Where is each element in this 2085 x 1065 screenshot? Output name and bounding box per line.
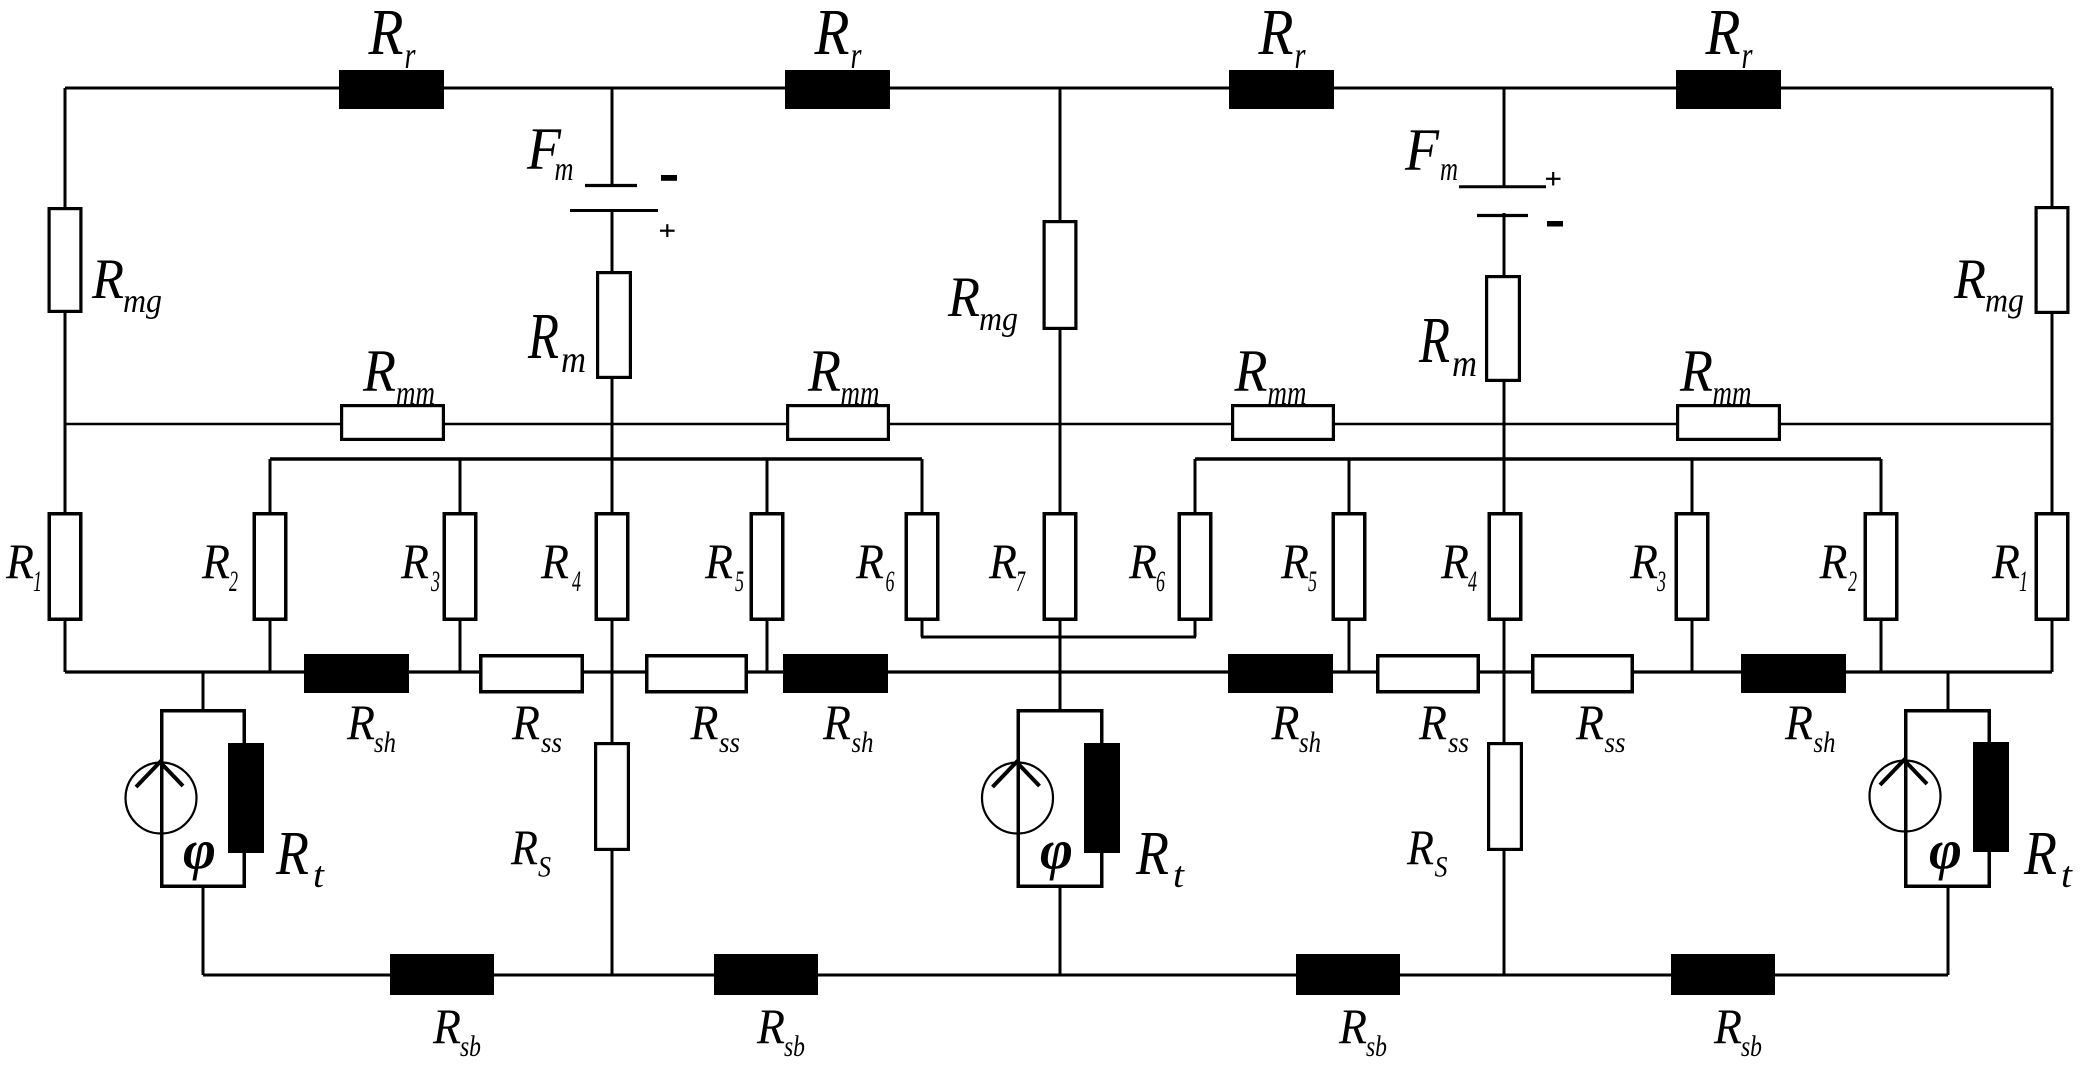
svg-text:3: 3: [1656, 565, 1666, 598]
svg-text:5: 5: [1308, 565, 1317, 598]
resistor R_sb #3 (black): [1296, 954, 1400, 1063]
svg-text:S: S: [538, 851, 551, 884]
wire left edge vertical: [64, 88, 67, 672]
resistor R4 left: [540, 514, 628, 620]
svg-text:r: r: [405, 35, 416, 77]
svg-text:mg: mg: [1985, 283, 2024, 320]
resistor R1 left: [5, 514, 81, 620]
resistor R3 left: [400, 514, 476, 620]
resistor R5 left: [704, 514, 783, 620]
svg-text:mm: mm: [396, 375, 435, 412]
resistor R_r #2 (black): [785, 0, 890, 109]
svg-text:t: t: [313, 855, 326, 896]
wire left Fm-Rm-R4-RS column: [611, 210, 614, 975]
svg-text:ss: ss: [1448, 726, 1469, 759]
svg-text:R: R: [91, 248, 124, 311]
svg-text:R: R: [400, 533, 429, 589]
wire right edge vertical: [2051, 88, 2054, 672]
resistor R3 right: [1629, 514, 1708, 620]
svg-text:R: R: [1128, 533, 1157, 589]
svg-text:R: R: [2023, 820, 2057, 888]
wire R_mm horizontal bus: [65, 423, 2052, 426]
wire R6 left stub: [921, 459, 924, 637]
svg-text:r: r: [1295, 35, 1306, 77]
svg-text:R: R: [1406, 819, 1434, 875]
svg-text:sb: sb: [1741, 1030, 1762, 1063]
wire R3 right stub: [1691, 459, 1694, 672]
svg-text:mm: mm: [841, 375, 880, 412]
svg-text:R: R: [5, 533, 34, 589]
svg-text:R: R: [1418, 694, 1447, 750]
svg-text:m: m: [1452, 343, 1477, 385]
svg-text:ss: ss: [541, 726, 562, 759]
resistor R_mm #4: [1678, 338, 1780, 439]
wire R6-R7 sub connection line: [921, 636, 1196, 639]
resistor R_mm #2: [788, 338, 889, 439]
svg-text:R: R: [988, 533, 1017, 589]
svg-text:R: R: [432, 998, 461, 1054]
svg-text:R: R: [1135, 820, 1169, 888]
resistor R2 right: [1819, 514, 1897, 620]
current source phi #2 (circle with arrow): [982, 711, 1102, 887]
svg-text:6: 6: [1156, 565, 1165, 598]
svg-text:R: R: [510, 819, 538, 875]
svg-text:R: R: [807, 338, 841, 404]
resistor R_sh #3 (black): [1228, 654, 1333, 759]
svg-text:sh: sh: [1814, 726, 1836, 759]
wire R6 right stub: [1194, 459, 1197, 637]
svg-text:4: 4: [1468, 565, 1477, 598]
svg-text:R: R: [1440, 533, 1469, 589]
svg-text:φ: φ: [183, 820, 216, 882]
svg-text:sh: sh: [852, 726, 874, 759]
svg-text:m: m: [561, 339, 586, 381]
svg-text:sb: sb: [460, 1030, 481, 1063]
svg-text:R: R: [690, 694, 719, 750]
resistor R_sb #1 (black): [390, 954, 494, 1063]
svg-text:6: 6: [886, 565, 895, 598]
svg-text:sh: sh: [1299, 726, 1321, 759]
svg-text:5: 5: [735, 565, 744, 598]
svg-text:R: R: [1234, 338, 1268, 404]
svg-text:R: R: [1418, 304, 1450, 377]
resistor R_r #1 (black): [339, 0, 444, 109]
wire phi1 top stub: [202, 672, 205, 709]
svg-text:R: R: [1280, 533, 1309, 589]
svg-text:1: 1: [33, 565, 42, 598]
svg-text:sb: sb: [1366, 1030, 1387, 1063]
svg-text:m: m: [1440, 151, 1458, 188]
wire main node line: [65, 670, 2052, 673]
resistor R_t #2 (black): [1084, 743, 1186, 896]
wire bottom bus: [203, 974, 1948, 977]
wire phi2 bottom stub: [1059, 888, 1062, 975]
resistor R_r #4 (black): [1676, 0, 1781, 109]
svg-text:2: 2: [229, 565, 238, 598]
resistor R_ss #3: [1378, 656, 1479, 759]
svg-text:R: R: [346, 694, 375, 750]
svg-text:φ: φ: [1040, 820, 1073, 882]
svg-text:R: R: [201, 533, 230, 589]
svg-text:mm: mm: [1713, 375, 1752, 412]
svg-text:4: 4: [572, 565, 581, 598]
resistor R_m left: [527, 273, 630, 381]
resistor R_r #3 (black): [1229, 0, 1334, 109]
svg-text:R: R: [814, 0, 850, 69]
resistor R_mg middle: [947, 222, 1076, 338]
svg-text:R: R: [1629, 533, 1658, 589]
resistor R_t #1 (black): [228, 743, 326, 896]
svg-text:R: R: [527, 300, 559, 373]
wire right Fm column upper: [1503, 88, 1506, 187]
resistor R_mm #3: [1233, 338, 1334, 439]
svg-text:R: R: [1679, 338, 1713, 404]
svg-text:R: R: [1705, 0, 1741, 69]
wire R2 right stub: [1880, 459, 1883, 672]
resistor R_mm #1: [342, 338, 444, 439]
resistor R6 right: [1128, 514, 1211, 620]
svg-text:R: R: [1575, 694, 1604, 750]
resistor R4 right: [1440, 514, 1521, 620]
svg-text:R: R: [822, 694, 851, 750]
wire right inner bus: [1195, 457, 1881, 461]
resistor R2 left: [201, 514, 286, 620]
svg-text:r: r: [851, 35, 862, 77]
svg-text:R: R: [1953, 248, 1986, 311]
wire phi1 bottom stub: [202, 888, 205, 975]
svg-text:1: 1: [2019, 565, 2028, 598]
svg-text:ss: ss: [1605, 726, 1626, 759]
svg-text:t: t: [1173, 855, 1186, 896]
svg-text:mg: mg: [123, 283, 162, 320]
wire right Fm-Rm-R4-RS column: [1503, 213, 1506, 975]
resistor R_m right: [1418, 277, 1519, 385]
wire middle vertical (Rmg-R7-phi column): [1059, 88, 1062, 709]
svg-text:sh: sh: [374, 726, 396, 759]
svg-text:R: R: [947, 266, 980, 329]
svg-text:mm: mm: [1268, 375, 1307, 412]
svg-text:R: R: [855, 533, 884, 589]
wire R3 left stub: [459, 459, 462, 672]
svg-text:m: m: [555, 151, 574, 188]
resistor R5 right: [1280, 514, 1365, 620]
resistor R_ss #1: [481, 656, 583, 759]
svg-text:R: R: [1819, 533, 1848, 589]
wire phi3 bottom stub: [1947, 888, 1950, 975]
svg-text:R: R: [1271, 694, 1300, 750]
svg-text:ss: ss: [719, 726, 740, 759]
svg-text:R: R: [1784, 694, 1813, 750]
wire R2 left stub: [269, 459, 272, 672]
current source phi #1 (circle with arrow): [126, 711, 245, 887]
resistor R6 left: [855, 514, 938, 620]
svg-text:r: r: [1742, 35, 1753, 77]
resistor R7 middle: [988, 514, 1076, 620]
battery F_m left (short plate top, long plate bottom): [526, 116, 677, 237]
svg-text:7: 7: [1016, 565, 1026, 598]
resistor R_sh #4 (black): [1741, 654, 1846, 759]
current source phi #3 (circle with arrow): [1870, 711, 1990, 887]
svg-text:R: R: [1258, 0, 1294, 69]
svg-text:sb: sb: [784, 1030, 805, 1063]
svg-text:R: R: [511, 694, 540, 750]
resistor R_sh #2 (black): [783, 654, 888, 759]
svg-text:φ: φ: [1929, 820, 1962, 882]
resistor R_ss #4: [1533, 656, 1633, 759]
svg-text:R: R: [540, 533, 569, 589]
svg-text:R: R: [1991, 533, 2020, 589]
resistor R_S right: [1406, 744, 1521, 884]
resistor R_mg right: [1953, 208, 2068, 320]
svg-text:mg: mg: [979, 301, 1018, 338]
svg-text:S: S: [1435, 851, 1448, 884]
resistor R_mg left: [49, 209, 162, 320]
resistor R_S left: [510, 744, 628, 884]
svg-text:R: R: [756, 998, 785, 1054]
svg-text:R: R: [1338, 998, 1367, 1054]
resistor R_ss #2: [647, 656, 747, 759]
resistor R_sb #2 (black): [714, 954, 818, 1063]
svg-text:R: R: [1713, 998, 1742, 1054]
svg-text:R: R: [368, 0, 404, 69]
wire R5 right stub: [1348, 459, 1351, 672]
resistor R1 right: [1991, 514, 2068, 620]
battery F_m right (long plate top, short plate bottom): [1404, 117, 1563, 227]
svg-text:R: R: [704, 533, 733, 589]
svg-text:F: F: [1404, 117, 1440, 183]
wire phi3 top stub: [1947, 672, 1950, 709]
svg-text:3: 3: [430, 565, 440, 598]
svg-text:2: 2: [1848, 565, 1857, 598]
resistor R_t #3 (black): [1973, 742, 2074, 896]
svg-text:R: R: [362, 338, 396, 404]
resistor R_sb #4 (black): [1671, 954, 1775, 1063]
wire top horizontal bus: [65, 87, 2052, 90]
wire left inner bus: [270, 457, 922, 461]
svg-text:R: R: [275, 820, 309, 888]
svg-text:t: t: [2061, 855, 2074, 896]
wire left Fm column upper: [611, 88, 614, 185]
wire R5 left stub: [766, 459, 769, 672]
resistor R_sh #1 (black): [304, 654, 409, 759]
